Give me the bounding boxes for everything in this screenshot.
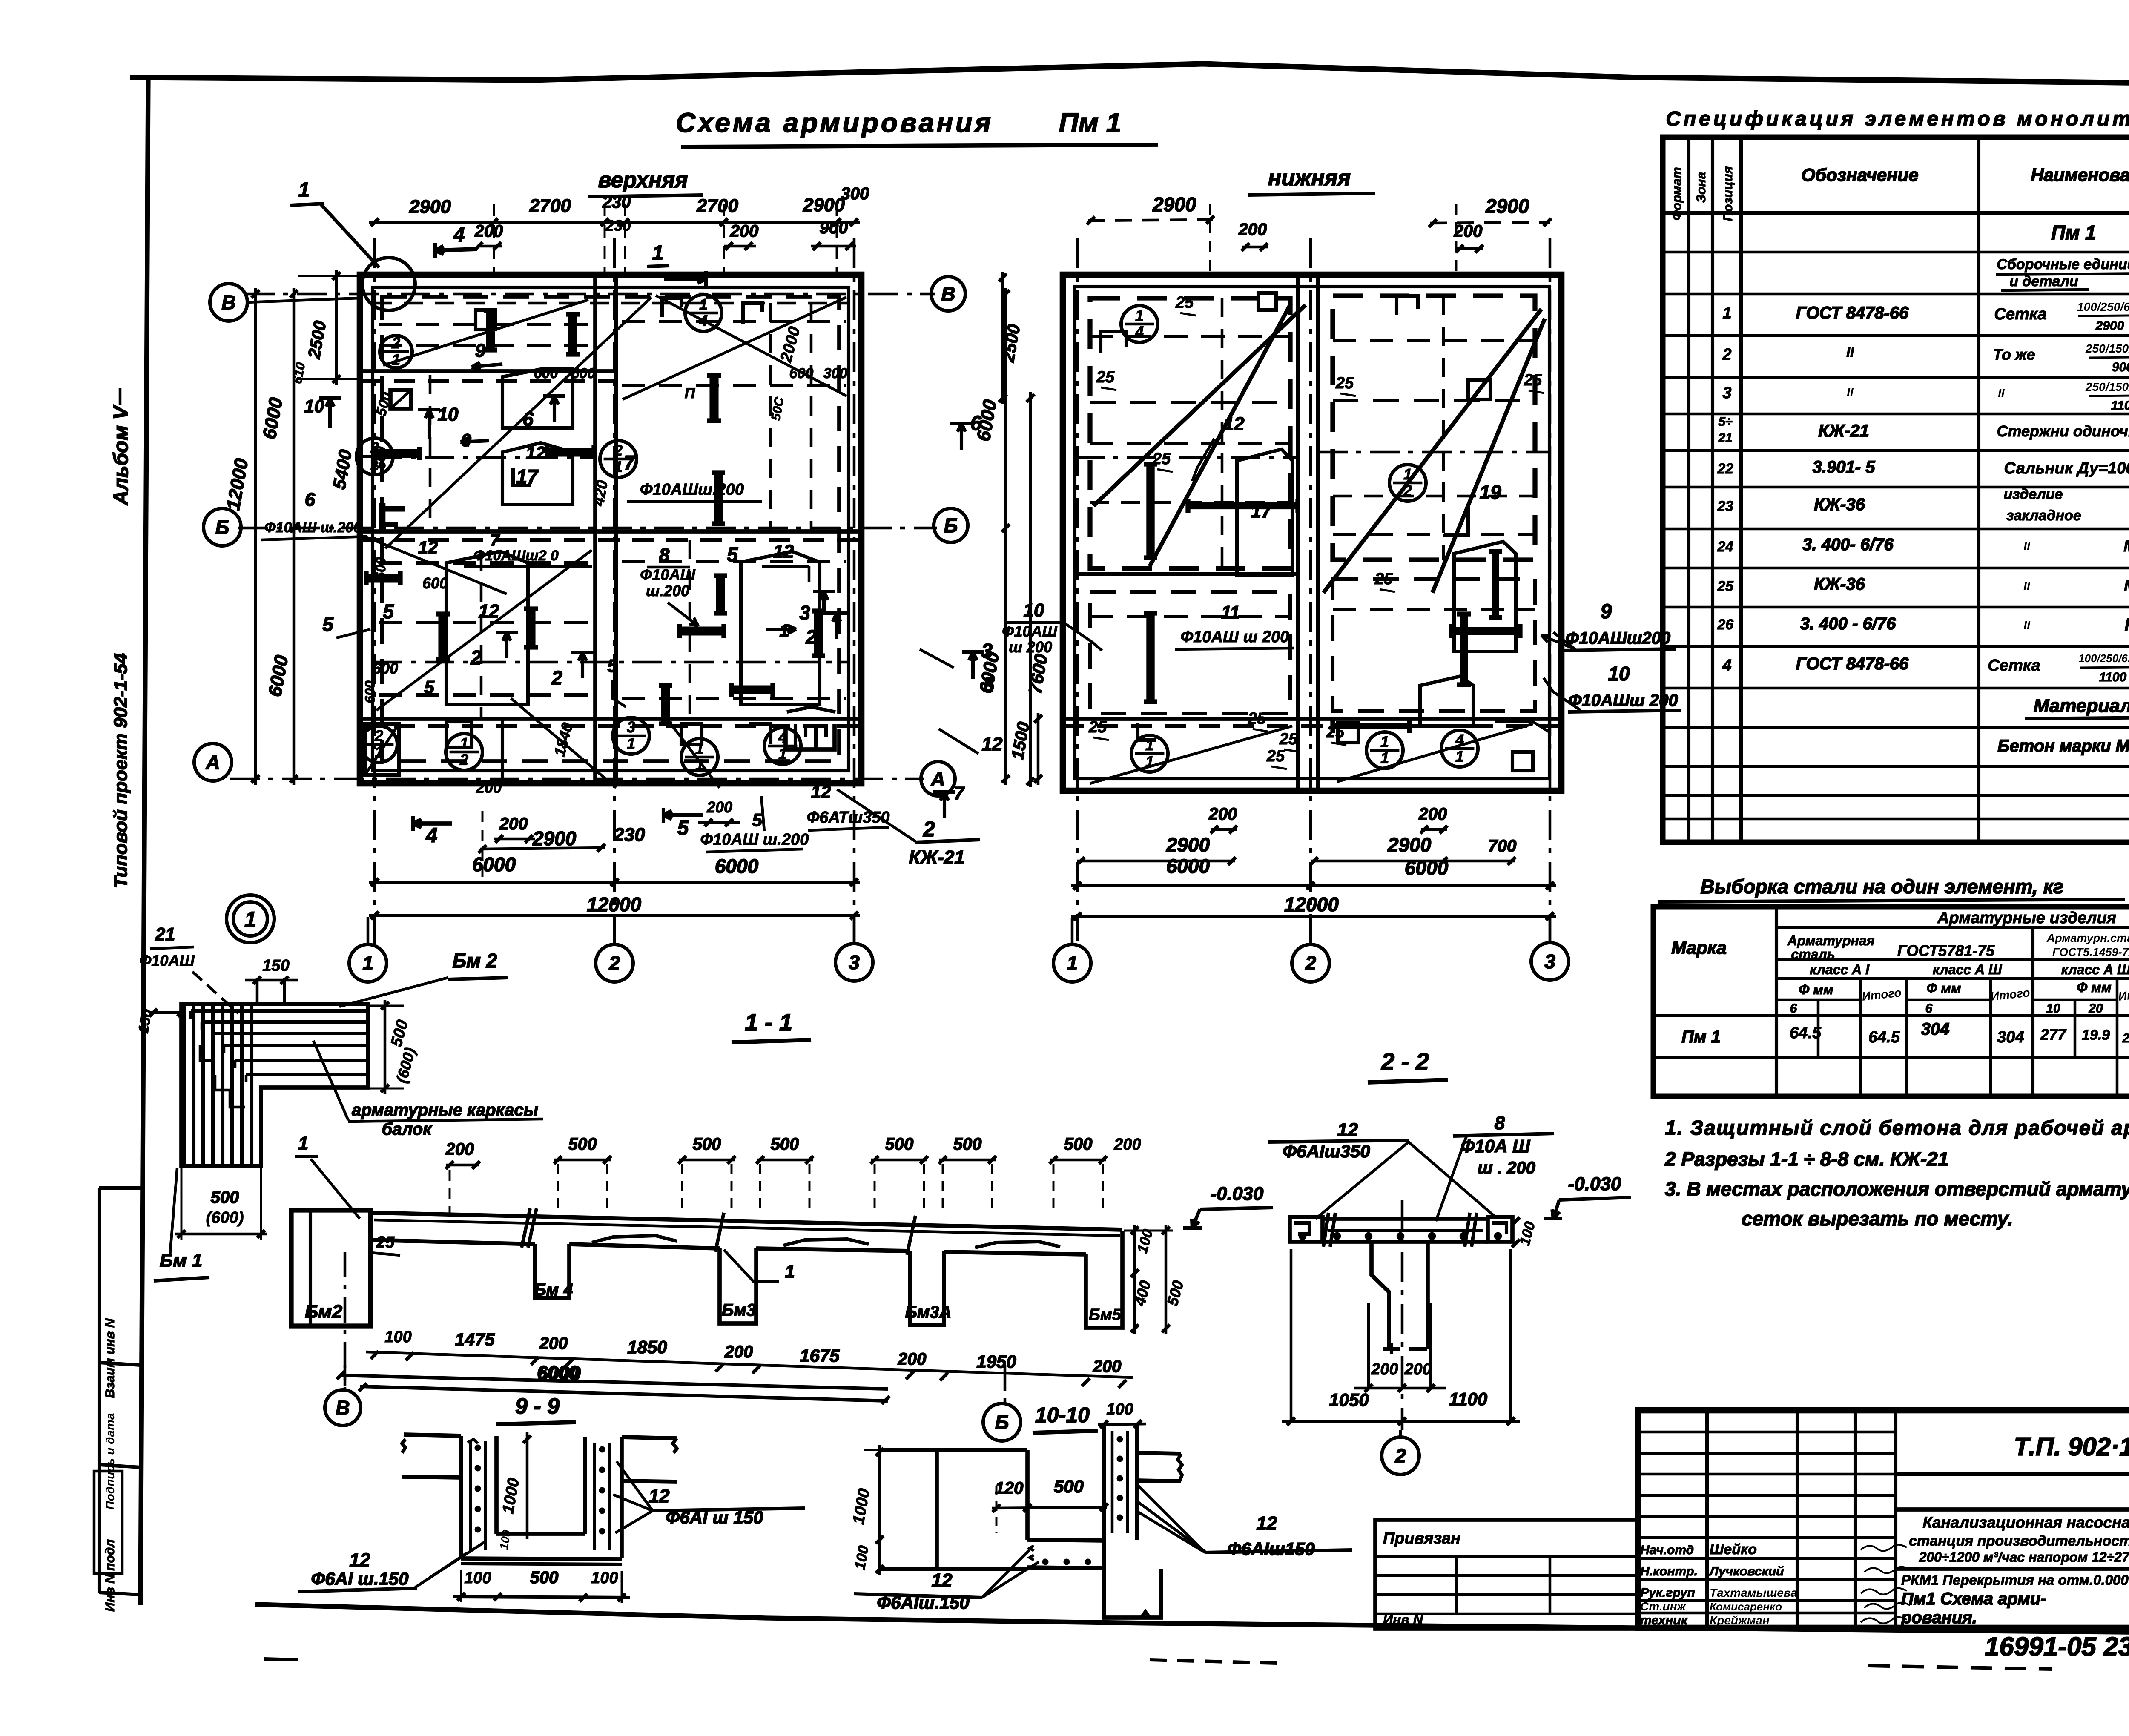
left plan outer wall rectangle [360,275,861,783]
section 1-1 slab outline [370,1213,1122,1230]
svg-text:1675: 1675 [800,1346,840,1366]
svg-text:900: 900 [820,218,848,237]
svg-text:25: 25 [1152,450,1171,468]
svg-text:1: 1 [1145,753,1154,770]
svg-text:1050: 1050 [1329,1390,1369,1410]
svg-text:класс А Ш: класс А Ш [2061,962,2129,977]
svg-text:5÷: 5÷ [1718,415,1733,429]
svg-text:2700: 2700 [529,195,571,216]
svg-text:200: 200 [1208,805,1237,824]
svg-text:5: 5 [607,656,617,676]
svg-text:КЖ-21: КЖ-21 [1818,422,1869,440]
left plan opening square 2 [476,310,495,330]
svg-text:700: 700 [1488,837,1517,855]
bottom dashes below frame [1150,1660,1277,1663]
svg-text:Марка: Марка [1671,938,1727,958]
svg-text:200: 200 [445,1140,474,1159]
left plan bold mark bottom [732,685,773,694]
left plan grid letter circle A [194,743,232,781]
section 10-10 wall [1102,1424,1106,1569]
svg-text:24: 24 [1717,539,1733,555]
svg-text:4: 4 [1135,323,1144,341]
svg-text:1: 1 [1455,748,1464,765]
svg-text:296.9: 296.9 [2122,1031,2129,1045]
right plan corridor wall left [1296,275,1300,791]
svg-text:5: 5 [727,543,738,565]
svg-text:12: 12 [1337,1119,1358,1140]
svg-text:500: 500 [953,1135,982,1154]
svg-text:Сетка: Сетка [1988,657,2040,674]
svg-text:25: 25 [1175,294,1194,312]
section 2-2 flange left cap [1290,1217,1323,1242]
svg-text:5: 5 [752,810,762,830]
svg-text:Ст.инж: Ст.инж [1640,1600,1687,1613]
left plan grid letter circle A right [921,762,955,796]
svg-text:Материалы: Материалы [2034,695,2129,716]
vyborka column minor verticals [1817,1016,1820,1058]
vyborka header GOST groups [2031,927,2034,1096]
svg-text:1: 1 [298,1133,308,1154]
corner detail double circle 1 [227,895,274,943]
left plan mesh trapezoid 12-2 [446,551,528,705]
svg-text:ш 200: ш 200 [1009,638,1052,656]
svg-text:10: 10 [1024,600,1044,621]
svg-text:Б: Б [995,1411,1009,1433]
svg-text:КЖ-36: КЖ-36 [1814,495,1865,514]
svg-text:техник: техник [1640,1613,1688,1627]
left plan dashed vertical x1010 [429,375,432,532]
svg-text:2: 2 [1394,1445,1406,1467]
left plan mesh trapezoid right 2 [741,551,820,705]
svg-text:1: 1 [652,242,664,264]
left plan grid line A horizontal [230,778,924,780]
svg-text:А: А [205,751,220,773]
left plan dash-dot y1555 [373,661,849,664]
svg-text:рования.: рования. [1901,1608,1977,1627]
svg-text:12: 12 [773,541,794,562]
left plan top-left detail circle 1 [362,258,415,310]
svg-text:1 - 1: 1 - 1 [745,1009,792,1036]
svg-text:2: 2 [923,817,935,841]
left plan inner wall rectangle [373,287,849,771]
svg-text:Ф мм: Ф мм [1799,982,1833,997]
svg-text:2: 2 [1305,952,1316,974]
svg-text:Сальник Ду=100: Сальник Ду=100 [2004,459,2129,477]
svg-text:21: 21 [1718,431,1732,445]
title block signature scribbles [1861,1545,1907,1551]
left plan wall y880 double [360,369,616,373]
svg-text:1100: 1100 [2099,670,2127,684]
corner detail step hooks [200,1045,215,1060]
svg-text:600: 600 [362,680,378,703]
section 2-2 stem bottom ties [1383,1347,1400,1351]
svg-text:10: 10 [1608,663,1630,685]
right plan fraction circle bottom 1-1 [1366,732,1403,769]
svg-text:2900: 2900 [1166,834,1210,856]
svg-text:900: 900 [2112,360,2129,374]
svg-text:1850: 1850 [627,1337,667,1357]
section 2-2 flange break marks [1323,1213,1328,1247]
svg-text:1: 1 [244,907,256,931]
right plan grid line 3 vertical [1549,238,1552,941]
svg-text:Пм 1: Пм 1 [1059,107,1122,138]
svg-text:600: 600 [373,557,388,580]
section 1-1 beam Bm3 stem [720,1248,756,1323]
right plan band y1335 wall [1075,572,1298,576]
svg-text:2700: 2700 [696,195,738,216]
left plan bottom small squares [446,722,472,747]
svg-text:Позиция: Позиция [1721,166,1735,221]
svg-text:2900: 2900 [532,827,577,849]
section 10-10 left big block [880,1448,1027,1452]
left plan corridor wall left [593,275,597,783]
left plan mesh X diagonal top-right room [623,297,846,399]
svg-text:200: 200 [1454,222,1483,241]
svg-text:277: 277 [2040,1026,2067,1043]
svg-text:Т.П. 902·1-: Т.П. 902·1- [2014,1432,2129,1461]
right plan big diagonal left panel 2 [1150,303,1291,566]
svg-text:200: 200 [1113,1136,1141,1154]
svg-text:8: 8 [659,545,670,565]
left plan wall y1690 double [360,717,861,721]
svg-text:3. В местах расположения: 3. В местах расположения отверстий армат… [1665,1178,2129,1200]
section 1-1 slab thickening humps [592,1236,677,1242]
section 9-9 bottom slab [496,1532,585,1536]
section 10-10 wall rebar [1111,1431,1114,1533]
svg-text:1: 1 [1135,307,1144,324]
left plan fraction circle bottom 1-2 [446,734,482,770]
left plan extra dashed verticals [480,551,483,719]
svg-text:150: 150 [262,957,289,975]
left plan diagonal bottom-mid [664,715,720,788]
svg-text:304: 304 [1921,1020,1950,1039]
left plan bottom dim line [480,848,605,849]
section 9-9 left wall [459,1436,463,1558]
svg-text:Ф10АШш200: Ф10АШш200 [1566,629,1670,648]
svg-text:6: 6 [1790,1001,1797,1016]
svg-text:Бетон марки М300: Бетон марки М300 [1997,737,2129,755]
right plan dashed horizontal y945 left [1090,401,1290,404]
vyborka class row [1776,958,2129,961]
svg-text:2: 2 [614,442,623,459]
svg-text:Ф10А Ш: Ф10А Ш [1461,1136,1531,1156]
svg-text:класс А I: класс А I [1810,962,1870,977]
svg-text:ш.200: ш.200 [646,582,689,600]
svg-text:2: 2 [459,751,468,769]
svg-text:Арматурные изделия: Арматурные изделия [1937,909,2116,927]
svg-text:1: 1 [1380,749,1389,767]
svg-text:1: 1 [392,351,400,368]
svg-text:Н.контр.: Н.контр. [1640,1564,1698,1578]
left plan opening square 1 [390,390,411,409]
svg-text:600: 600 [571,365,596,382]
svg-text:Сетка: Сетка [1994,305,2046,323]
svg-text:6000: 6000 [1166,855,1210,877]
svg-text:II: II [1847,385,1854,399]
svg-text:12: 12 [932,1570,953,1591]
svg-text:Ф10АШ ш.200: Ф10АШ ш.200 [700,831,809,849]
section 2-2 leader lines [1316,1142,1409,1219]
section 2-2 stem [1372,1242,1389,1349]
svg-text:21: 21 [155,924,175,944]
svg-text:Канализационная насосная: Канализационная насосная [1922,1514,2129,1531]
left plan small rect bottom left [365,724,399,775]
left plan grid line B horizontal [238,527,937,530]
left plan long leader diagonal 9 [385,297,651,548]
left plan grid letter circle V right [931,277,965,311]
svg-text:1: 1 [699,296,708,313]
svg-text:500: 500 [211,1188,239,1207]
left plan dashed vertical x1620 [689,540,691,719]
svg-text:Ф6АIш350: Ф6АIш350 [1283,1141,1370,1161]
svg-text:200: 200 [1404,1360,1431,1378]
section 2-2 vertical dim lines [1290,1249,1293,1420]
left plan grid line 1 vertical [373,238,376,950]
left plan fraction circle 2-1 mid [356,438,393,475]
left plan leader to fraction 2-1 [511,698,616,788]
svg-text:2: 2 [1722,346,1731,364]
left plan grid letter circle B right [934,508,968,542]
svg-text:300: 300 [823,365,848,382]
svg-text:В: В [221,291,235,313]
svg-text:Подпись и дата: Подпись и дата [103,1413,117,1510]
svg-text:Ф6АIш150: Ф6АIш150 [1227,1539,1315,1559]
svg-text:2900: 2900 [409,196,451,217]
right plan dashed panel top-left [1090,298,1290,568]
svg-text:II: II [2023,579,2031,592]
svg-text:20: 20 [2088,1001,2103,1016]
svg-text:Взаим инв N: Взаим инв N [103,1318,117,1398]
right plan fraction circle 1-4 [1121,306,1158,342]
left plan dashed vertical x1180 [501,720,504,783]
svg-text:ГОСТ5.1459-72*: ГОСТ5.1459-72* [2052,946,2129,958]
svg-text:4: 4 [453,224,465,247]
svg-text:Стержни одиночные: Стержни одиночные [1997,422,2129,440]
left plan mesh diagonal top-left room [383,300,588,365]
svg-text:25: 25 [1717,578,1734,594]
svg-text:7: 7 [490,531,500,550]
left plan fraction circle bottom 3-1 [613,717,649,754]
section 1-1 beam Bm5 stem [1086,1231,1122,1328]
section 9-9 wall rebar left [469,1441,472,1550]
right plan dash-dot mid horizontals [1075,456,1298,459]
left plan rebar bold marks [486,311,495,350]
svg-text:9: 9 [475,340,486,361]
right plan big diagonal right panel 2 [1432,319,1545,593]
privyazan box rows [1375,1555,1638,1558]
svg-text:Нач.отд: Нач.отд [1640,1543,1694,1557]
svg-text:25: 25 [1096,368,1115,386]
svg-text:Б: Б [944,514,958,537]
svg-text:Лучковский: Лучковский [1709,1564,1784,1578]
right plan fraction circle bottom 1 [1131,735,1168,772]
title block kanaliz box [1896,1507,2129,1512]
right plan fraction circle 1-2 [1389,465,1426,501]
svg-text:1950: 1950 [976,1351,1016,1372]
section 1-1 slab rebar line [374,1220,1120,1236]
svg-text:25: 25 [1374,570,1393,588]
section 9-9 left slab stub [402,1439,405,1453]
left plan grid letter circle B [204,508,241,546]
svg-text:II: II [2023,619,2031,632]
svg-text:Бм 4: Бм 4 [534,1280,573,1299]
title block left grid horizontals [1638,1431,1896,1434]
svg-text:Ф10АШш.200: Ф10АШш.200 [640,481,744,499]
svg-text:200: 200 [730,222,759,241]
svg-text:2900: 2900 [1485,195,1529,217]
svg-text:Пм 1: Пм 1 [1681,1027,1721,1046]
svg-text:25: 25 [1248,710,1266,728]
svg-text:2: 2 [608,952,620,974]
svg-text:12: 12 [418,537,438,557]
left plan top ext lines [493,204,495,276]
svg-text:9 - 9: 9 - 9 [515,1394,560,1419]
right plan bottom band wall [1063,717,1561,721]
left plan fraction circle 2-1 grid2 [600,441,637,477]
left plan grid line 2 vertical [613,238,616,950]
svg-text:ГОСТ5781-75: ГОСТ5781-75 [1897,942,1995,959]
corner detail outline [181,1004,368,1166]
svg-text:II: II [1846,344,1854,360]
svg-text:6: 6 [1925,1001,1933,1016]
svg-text:Арматурн.сталь: Арматурн.сталь [2046,932,2129,944]
svg-text:100: 100 [464,1569,491,1587]
svg-text:1: 1 [460,735,468,752]
right plan trapezoid right [1454,542,1516,651]
right plan grid line 1 vertical [1076,238,1079,941]
svg-text:Ф10АШ ш.200: Ф10АШ ш.200 [264,519,362,536]
svg-text:Наименование: Наименование [2031,165,2129,185]
svg-text:4: 4 [699,312,708,330]
svg-text:То же: То же [1993,346,2035,363]
sheet frame left border [141,76,148,1605]
svg-text:Зона: Зона [1694,172,1708,203]
section 10-10 right slab [1137,1453,1181,1454]
left plan fraction circle 1-4 [380,336,412,368]
right plan dashed horizontal y940 right [1333,399,1535,402]
svg-text:600: 600 [789,365,814,382]
svg-text:Пм 1: Пм 1 [2051,221,2096,244]
svg-text:II: II [1998,386,2005,399]
left plan bottom grid circles [349,944,387,982]
svg-text:ш . 200: ш . 200 [1478,1159,1535,1177]
svg-text:200: 200 [724,1343,753,1361]
svg-text:230: 230 [605,217,631,234]
svg-text:Пм1 Схема арми-: Пм1 Схема арми- [1901,1590,2046,1608]
section 2-2 flange right cap [1488,1217,1512,1242]
svg-text:2: 2 [391,334,400,352]
svg-text:МН-15: МН-15 [2124,577,2129,595]
svg-text:4: 4 [1722,657,1731,674]
svg-text:Ф мм: Ф мм [1926,981,1961,996]
svg-text:МН 4-47: МН 4-47 [2123,537,2129,555]
svg-text:Ф6АI ш.150: Ф6АI ш.150 [311,1569,409,1589]
svg-text:1: 1 [1067,952,1078,974]
svg-text:Бм3А: Бм3А [905,1303,951,1322]
svg-text:25: 25 [1279,730,1298,748]
svg-text:600: 600 [534,365,558,382]
svg-text:сеток вырезать по месту.: сеток вырезать по месту. [1742,1208,2013,1230]
svg-text:КЖ-21: КЖ-21 [909,847,964,868]
left plan top dim line 1 [369,221,860,224]
svg-text:4: 4 [1455,731,1464,749]
left plan corridor wall right [614,275,618,783]
svg-text:230: 230 [613,824,645,845]
svg-text:200÷1200 м³/час напором 12÷27: 200÷1200 м³/час напором 12÷27м. [1919,1549,2129,1565]
svg-text:25: 25 [1326,723,1345,741]
svg-text:1475: 1475 [455,1329,495,1349]
svg-text:1. Защитный слой бетона: 1. Защитный слой бетона для рабочей арма… [1665,1117,2129,1139]
svg-text:Привязан: Привязан [1383,1529,1460,1547]
right plan dashed horizontal y1180 left [1090,501,1290,504]
section 10-10 leader lines [1138,1502,1205,1552]
svg-text:500: 500 [885,1135,914,1154]
svg-text:7: 7 [624,451,636,473]
svg-text:2900: 2900 [2095,319,2124,333]
svg-text:Бм 2: Бм 2 [453,950,497,972]
handwritten underline dashes [1868,1666,2052,1669]
svg-text:304: 304 [1997,1028,2024,1046]
svg-text:10: 10 [438,404,459,425]
svg-text:64.5: 64.5 [1868,1028,1900,1046]
svg-text:500: 500 [530,1568,559,1587]
svg-text:12: 12 [526,443,546,463]
right plan diagonal bottom right [1337,724,1533,782]
svg-text:100/250/6АШ/4ВI: 100/250/6АШ/4ВI [2077,300,2129,313]
svg-text:25: 25 [1335,374,1354,392]
right plan big diagonal left panel 1 [1093,305,1306,506]
svg-text:1100: 1100 [1449,1389,1487,1409]
vyborka f mm row [1859,978,1862,1096]
section 1-1 dim line below [366,1352,1133,1377]
svg-text:6000: 6000 [715,855,759,877]
left plan opening square top mid [662,298,681,317]
svg-text:250/150/4ВI/5ВI: 250/150/4ВI/5ВI [2085,342,2129,355]
svg-text:Инв N подл: Инв N подл [103,1539,117,1612]
left plan grid line 3 vertical [853,238,856,950]
left plan extra dashed rows bottom rooms [379,561,592,565]
svg-text:12: 12 [1257,1513,1277,1534]
section 1-1 break marks [522,1208,530,1248]
svg-text:-0.030: -0.030 [1568,1174,1621,1194]
svg-text:Арматурная: Арматурная [1787,933,1875,948]
svg-text:200: 200 [1093,1357,1122,1376]
svg-text:25: 25 [1266,747,1285,765]
svg-text:6000: 6000 [472,853,516,875]
svg-text:В: В [336,1397,350,1419]
right plan outer wall rectangle [1063,275,1561,791]
svg-text:230: 230 [602,193,631,212]
svg-text:17: 17 [1251,501,1273,522]
right plan corridor wall right [1316,275,1320,791]
right plan grid line 2 vertical [1309,238,1312,941]
svg-text:9: 9 [1601,600,1612,623]
svg-text:23: 23 [1717,498,1733,514]
svg-text:5: 5 [424,677,434,697]
title block big cell TP 902-1 KZh [1896,1472,2129,1476]
svg-text:64.5: 64.5 [1790,1024,1822,1042]
svg-text:12: 12 [811,782,831,802]
spec table horizontal lines [1663,211,2129,215]
svg-text:закладное: закладное [2006,508,2081,524]
vyborka table frame [1653,907,2129,1096]
svg-text:300: 300 [841,184,869,203]
right plan diagonal bottom left [1090,726,1292,783]
left margin small column lines [98,1188,101,1593]
svg-text:Инв N: Инв N [1383,1612,1423,1627]
svg-text:8: 8 [1495,1113,1505,1133]
svg-text:25: 25 [1524,371,1542,389]
